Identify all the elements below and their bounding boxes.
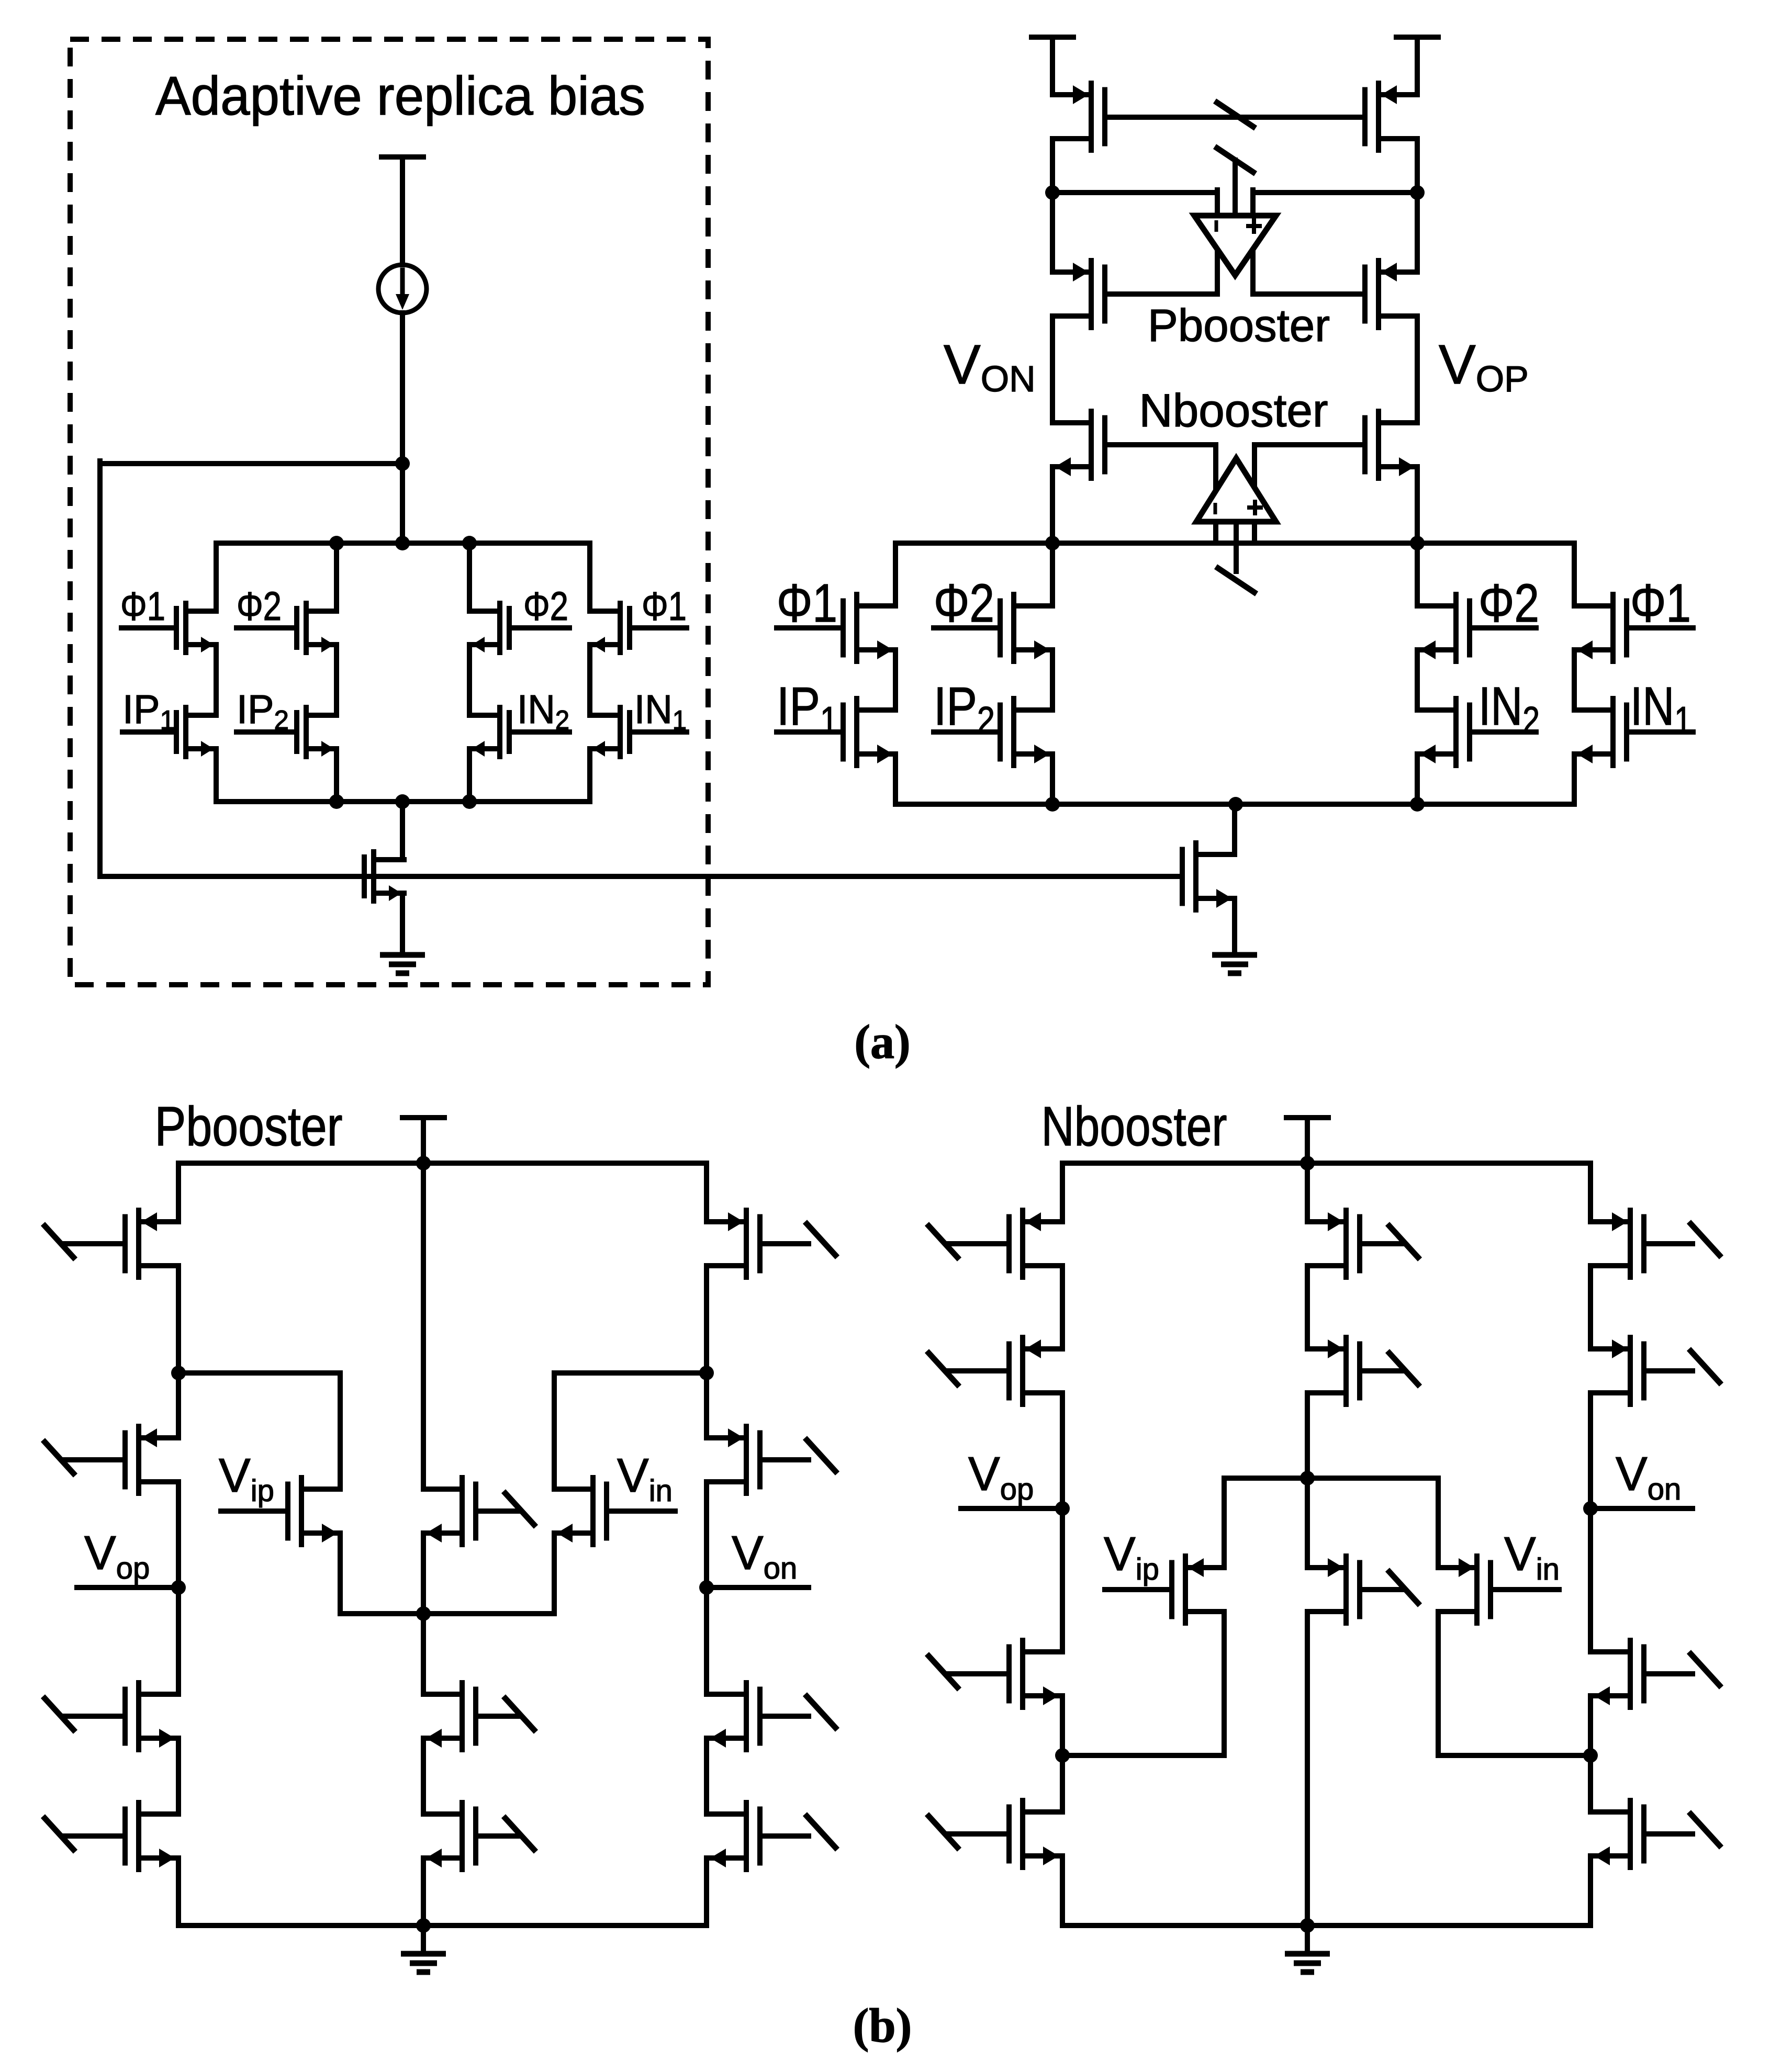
- svg-text:Φ1: Φ1: [642, 584, 687, 629]
- svg-text:Pbooster: Pbooster: [155, 1096, 343, 1157]
- svg-text:Φ2: Φ2: [237, 584, 282, 629]
- svg-text:(a): (a): [854, 1015, 910, 1068]
- svg-text:Φ2: Φ2: [934, 573, 994, 633]
- svg-text:(b): (b): [853, 1999, 912, 2052]
- svg-text:Φ2: Φ2: [1478, 573, 1539, 633]
- svg-text:Φ1: Φ1: [777, 573, 837, 633]
- svg-text:Φ1: Φ1: [1630, 573, 1691, 633]
- svg-text:Pbooster: Pbooster: [1148, 300, 1330, 351]
- svg-text:Adaptive replica bias: Adaptive replica bias: [155, 66, 645, 127]
- svg-text:Nbooster: Nbooster: [1139, 384, 1328, 436]
- svg-text:Φ2: Φ2: [523, 584, 568, 629]
- svg-text:Φ1: Φ1: [120, 584, 165, 629]
- svg-text:Nbooster: Nbooster: [1041, 1096, 1227, 1157]
